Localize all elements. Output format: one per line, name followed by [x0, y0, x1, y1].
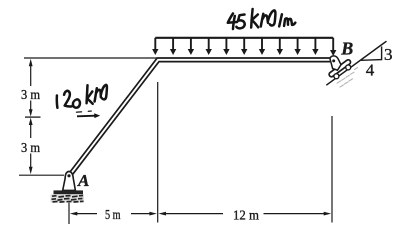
slope triangle bottom side [361, 59, 382, 62]
load arrow 11 [330, 38, 336, 56]
svg-text:12 m: 12 m [233, 209, 259, 224]
svg-text:3 m: 3 m [21, 88, 40, 103]
middle tick of left dimension [25, 116, 41, 118]
wire tick below support A [68, 203, 70, 224]
svg-text:3 m: 3 m [21, 141, 40, 156]
svg-text:3: 3 [384, 45, 393, 64]
roller 1 at B [334, 74, 339, 79]
arrowhead up below middle tick [29, 118, 33, 125]
wire right vertical extension line below B [331, 116, 333, 223]
roller 2 at B [346, 65, 351, 70]
load arrow 7 [259, 38, 265, 55]
support A pin bracket [63, 171, 76, 190]
handwritten label 120 kN [57, 85, 107, 108]
handwritten label 45 kN/m [228, 9, 295, 29]
force arrow 120 kN [77, 113, 100, 118]
load arrow 2 [170, 38, 176, 55]
distributed load top bar [155, 37, 333, 39]
load arrow 5 [223, 38, 229, 55]
load arrow 10 [312, 38, 318, 55]
svg-text:4: 4 [366, 61, 375, 80]
wire bottom extension line at support A level [19, 174, 64, 176]
load arrow 4 [206, 38, 212, 55]
wire top extension line from knee to left dimension [24, 57, 157, 59]
handwritten dashes under 120 kN [77, 111, 92, 112]
load arrow 8 [277, 38, 283, 55]
arrowhead down at bottom of left dimension [29, 167, 33, 174]
pin at A [67, 174, 70, 177]
dimension 5 m [70, 208, 157, 223]
arrowhead up at top of left dimension [29, 59, 33, 66]
member AB top chord (incline + horizontal beam top line) [68, 58, 330, 175]
slope triangle vertical side [381, 47, 383, 61]
load arrow 3 [188, 38, 194, 55]
pin at B [332, 59, 335, 62]
support A base plate [54, 190, 84, 194]
load arrow 6 [241, 38, 247, 55]
support A ground block with hatch texture [51, 194, 85, 202]
svg-text:A: A [77, 171, 89, 190]
load arrow 9 [294, 38, 300, 55]
dimension 12 m [159, 209, 332, 224]
svg-text:B: B [340, 39, 353, 59]
support B incline hatch [337, 68, 358, 87]
left dimension line upper 3 m segment [30, 62, 32, 113]
svg-text:5 m: 5 m [105, 208, 121, 223]
arrowhead down at middle tick [29, 109, 33, 116]
left dimension line lower 3 m segment [30, 122, 32, 171]
support B incline ground line [326, 41, 386, 85]
load arrow 1 [152, 38, 158, 55]
wire knee vertical extension line [157, 82, 159, 223]
support B roller slab [328, 59, 351, 78]
support B pin bracket [330, 56, 341, 70]
member AB bottom chord (incline + horizontal beam bottom line) [70, 62, 330, 178]
